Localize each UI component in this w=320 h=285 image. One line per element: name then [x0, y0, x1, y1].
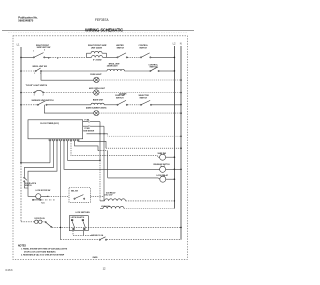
wire rung2 — [42, 70, 107, 72]
svg-text:SWITCH: SWITCH — [140, 97, 148, 99]
svg-text:SWITCH: SWITCH — [25, 185, 32, 187]
svg-text:6 RD-BU 12 GA: 6 RD-BU 12 GA — [91, 234, 104, 237]
svg-text:0463: 0463 — [6, 269, 14, 272]
svg-text:8" 2100W: 8" 2100W — [93, 59, 102, 61]
svg-text:2: 2 — [44, 50, 45, 52]
op-amp EOC box — [28, 120, 83, 139]
dotted separator under title — [8, 31, 188, 33]
svg-text:N: N — [180, 41, 182, 45]
terminal tick rung1 — [57, 57, 59, 59]
wire L1 bottom rung — [21, 221, 34, 223]
wire EOC-1 to L1 rung — [49, 141, 51, 163]
svg-text:BROIL UNIT SW: BROIL UNIT SW — [33, 66, 48, 68]
lamp oven light 2 — [94, 90, 99, 95]
switch S4 broil — [35, 68, 42, 72]
wire rung1 right — [151, 56, 174, 58]
svg-text:DOOR LOCK LIGHT AND BAKE(HI): DOOR LOCK LIGHT AND BAKE(HI) — [24, 250, 56, 253]
switch S1 — [33, 53, 45, 58]
svg-text:40W OVEN LIGHT: 40W OVEN LIGHT — [89, 87, 106, 90]
svg-text:LOCK MOTOR SW: LOCK MOTOR SW — [36, 190, 51, 192]
svg-text:SWITCH: SWITCH — [116, 97, 124, 99]
wire EOC-8 — [75, 141, 99, 151]
connector plug pair — [35, 220, 42, 223]
wire rung4 — [47, 104, 91, 106]
svg-text:SWITCH: SWITCH — [117, 47, 125, 49]
junction dots L2 — [174, 57, 176, 202]
lamp indicator C — [160, 175, 166, 182]
wire rung1 left — [21, 56, 33, 58]
svg-text:3400W 240V: 3400W 240V — [107, 64, 119, 67]
EOC right pin 1 — [83, 121, 89, 123]
svg-text:SURF IND: SURF IND — [158, 153, 167, 155]
wire rung3 right — [99, 92, 181, 94]
resistor bake element — [91, 103, 104, 105]
wire rung1 mid — [45, 56, 50, 58]
svg-text:1: 1 — [34, 94, 35, 96]
wire rung2 — [125, 70, 151, 72]
junction dots N — [180, 79, 182, 228]
svg-text:LOCK COIL: LOCK COIL — [101, 206, 110, 208]
wire L1 to EOC rung — [21, 162, 50, 164]
wire lock rung — [108, 177, 159, 179]
junction dots L1 — [20, 57, 22, 164]
EOC terminal row — [49, 139, 79, 141]
schematic frame — [13, 36, 187, 260]
svg-text:2. RESISTANCE VAL IS 10 OHM AT: 2. RESISTANCE VAL IS 10 OHM AT ROOM TEMP — [21, 253, 65, 256]
svg-text:UNIT 2350W: UNIT 2350W — [91, 47, 102, 49]
coil 2 — [100, 208, 103, 210]
wire box2 bottom — [73, 231, 93, 236]
wire rung4 — [127, 104, 140, 106]
switch S8 — [140, 100, 151, 105]
wire rung3 — [44, 92, 94, 94]
wire rung2 left — [21, 70, 35, 72]
coil 1 — [100, 200, 105, 202]
svg-text:N.O.: N.O. — [41, 202, 45, 204]
svg-text:LOCK SWITCHES: LOCK SWITCHES — [76, 212, 91, 214]
svg-text:MDL SW: MDL SW — [71, 190, 78, 192]
svg-text:1: 1 — [33, 51, 34, 53]
contact row under motor — [32, 199, 41, 200]
wire rung3 left — [21, 92, 34, 94]
motor lock motor — [33, 194, 48, 199]
wire lamp3 to N — [99, 112, 181, 114]
wire to lock rung vertical — [107, 151, 109, 178]
svg-text:2945D: 2945D — [93, 256, 99, 259]
svg-text:LOCK RELAY: LOCK RELAY — [157, 174, 169, 177]
wire branch from rung4 — [44, 105, 93, 113]
svg-text:RELEASE SWITCH: RELEASE SWITCH — [154, 163, 171, 166]
svg-text:SWITCH: SWITCH — [150, 67, 158, 69]
switch S6 — [37, 101, 47, 106]
wire EOC-9 to N — [78, 141, 106, 148]
wire cluster joins — [24, 181, 28, 188]
svg-text:DOOR PLUG: DOOR PLUG — [35, 218, 46, 220]
wire branch from rung2 — [41, 71, 94, 80]
wire bottom rung right to N — [107, 239, 181, 241]
wire rung1 — [127, 56, 140, 58]
wire EOC-4 long vertical — [60, 141, 62, 240]
svg-text:FEF357A: FEF357A — [95, 18, 109, 22]
switch in box right — [82, 219, 86, 230]
svg-text:SWITCH: SWITCH — [139, 47, 147, 49]
wire pin2 vertical — [103, 126, 105, 201]
svg-text:5995348875: 5995348875 — [18, 18, 33, 22]
lamp oven light 3 — [94, 111, 99, 116]
switch door light — [34, 90, 44, 93]
switch jog contact — [45, 222, 52, 228]
wire connector to jog — [42, 221, 45, 223]
svg-text:WIRING SCHEMATIC: WIRING SCHEMATIC — [85, 27, 123, 32]
wire pin1 vertical — [99, 122, 101, 161]
header rule line — [2, 30, 194, 32]
lamp indicator A — [160, 153, 166, 160]
wire EOC-7 to indicator A — [71, 141, 160, 157]
wire EOC-6 — [68, 141, 101, 161]
svg-text:P2 WH: P2 WH — [85, 128, 91, 130]
switch bottom interlock — [99, 237, 106, 240]
wire bottom rung left — [61, 239, 100, 241]
lock switch box — [69, 216, 88, 231]
wire rung1 — [107, 56, 118, 58]
svg-text:COIL 120V: COIL 120V — [104, 195, 113, 197]
wire EOC-3 nested corner — [28, 141, 57, 181]
svg-text:OVEN LIGHT: OVEN LIGHT — [90, 74, 102, 76]
lamp indicator B — [160, 166, 166, 173]
svg-text:SURFACE UNIT SWITCH: SURFACE UNIT SWITCH — [32, 99, 55, 102]
switch S3 — [140, 53, 151, 58]
resistor broil element — [107, 69, 125, 71]
wire EOC-2 nested corner — [24, 141, 53, 177]
wire lamp to N — [99, 79, 181, 81]
wire rung4 right — [152, 104, 181, 106]
L1 bus wire — [20, 47, 22, 163]
switch S2 — [117, 53, 128, 58]
svg-text:CLOCK TIMER (EOC): CLOCK TIMER (EOC) — [40, 123, 59, 125]
svg-text:2: 2 — [43, 94, 44, 96]
wire rung2 right — [159, 70, 174, 72]
resistor element RF surface unit (parallel pair) — [87, 51, 107, 57]
svg-text:OVEN SENSOR: OVEN SENSOR — [83, 131, 96, 133]
L2 bus wire — [173, 46, 175, 209]
svg-text:NOTES: NOTES — [18, 245, 26, 247]
relay box dashed — [69, 188, 90, 203]
switch S5 — [150, 67, 159, 72]
lamp oven light — [94, 77, 99, 82]
wire sensor to N dotted — [108, 134, 181, 136]
svg-text:BAKE UNIT: BAKE UNIT — [93, 99, 104, 102]
switch S7 — [117, 100, 128, 105]
switch latch1 — [24, 177, 27, 183]
N bus wire — [180, 46, 182, 240]
svg-text:SURF UNIT SW: SURF UNIT SW — [37, 47, 51, 49]
switch in box left — [71, 219, 75, 230]
svg-text:"DOOR" LIGHT SWITCH: "DOOR" LIGHT SWITCH — [26, 85, 48, 87]
svg-text:1. PANEL SHOWN WITH TIME OF DA: 1. PANEL SHOWN WITH TIME OF DAY (AM) LIG… — [21, 248, 68, 251]
wire rung4 — [104, 104, 117, 106]
wire rung4 left — [21, 104, 37, 106]
svg-text:1: 1 — [34, 73, 35, 75]
wire EOC-5 to indicator B — [64, 141, 160, 170]
svg-text:(BAKE ELEMENT 2585W): (BAKE ELEMENT 2585W) — [86, 107, 107, 110]
EOC right pin 2 — [83, 125, 89, 127]
